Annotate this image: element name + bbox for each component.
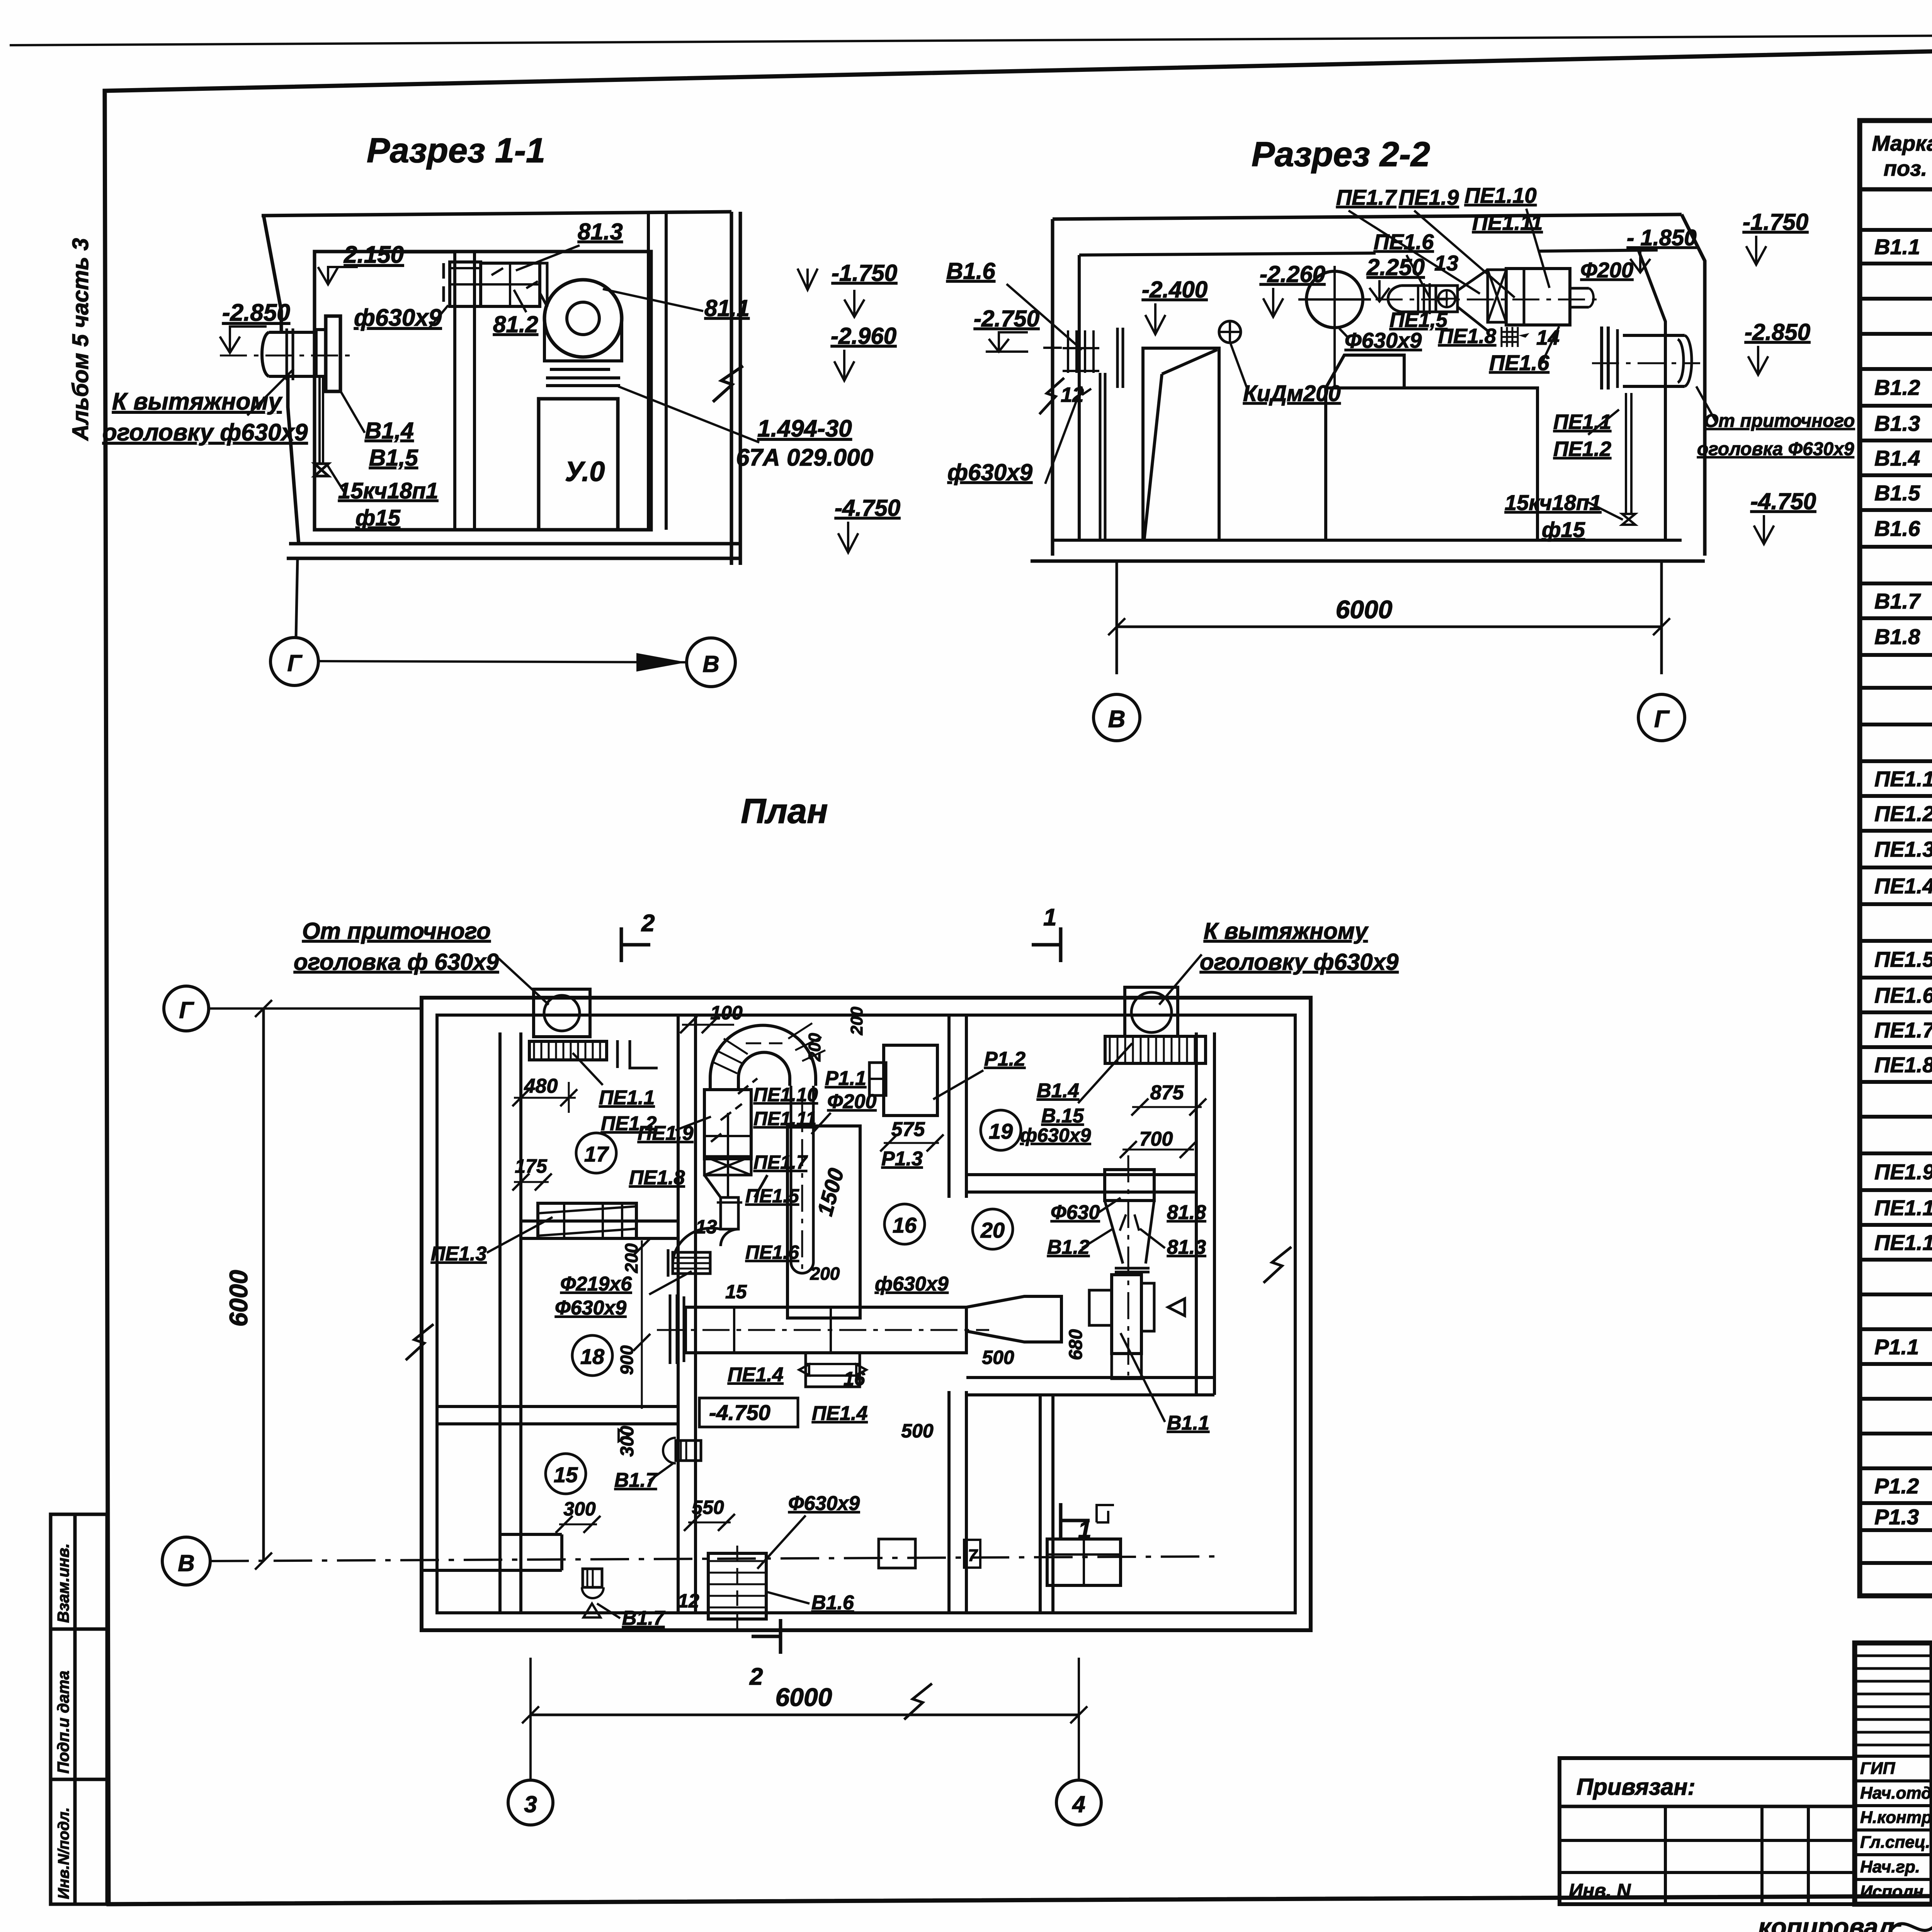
svg-text:15кч18п1: 15кч18п1 xyxy=(338,478,438,503)
svg-text:2: 2 xyxy=(641,910,655,937)
svg-text:200: 200 xyxy=(847,1007,866,1036)
plan boxed -4.750 xyxy=(699,1398,798,1427)
svg-text:К вытяжному: К вытяжному xyxy=(112,388,283,415)
svg-text:ПЕ1.6: ПЕ1.6 xyxy=(745,1242,799,1263)
svg-text:Г: Г xyxy=(179,997,195,1023)
svg-text:Ф630х9: Ф630х9 xyxy=(1345,328,1422,352)
svg-text:-2.260: -2.260 xyxy=(1260,261,1325,287)
svg-text:Нач.гр.: Нач.гр. xyxy=(1860,1857,1920,1876)
s1 outer left notch xyxy=(264,215,281,332)
svg-text:81.1: 81.1 xyxy=(704,295,750,321)
spec table header row line xyxy=(1860,187,1932,192)
s1 wedge xyxy=(540,263,547,306)
svg-text:2.150: 2.150 xyxy=(344,241,404,268)
svg-text:Исполн.: Исполн. xyxy=(1860,1882,1928,1901)
svg-text:ПЕ1.11: ПЕ1.11 xyxy=(1874,1230,1932,1255)
s1 drain pipe xyxy=(318,376,321,464)
svg-text:900: 900 xyxy=(617,1345,637,1375)
svg-text:Г: Г xyxy=(1654,706,1670,733)
svg-text:ПЕ1.10: ПЕ1.10 xyxy=(1464,183,1537,207)
svg-text:-4.750: -4.750 xyxy=(1750,488,1816,514)
svg-text:Марка: Марка xyxy=(1872,131,1932,155)
plan PE1.9 leader xyxy=(675,1117,711,1130)
plan filter X section xyxy=(704,1156,751,1175)
spec table outer box xyxy=(1860,121,1932,1596)
svg-text:14: 14 xyxy=(1536,326,1560,349)
s2 break mark left xyxy=(1039,378,1064,414)
svg-text:1: 1 xyxy=(1078,1517,1091,1543)
svg-text:Р1.1: Р1.1 xyxy=(825,1067,866,1090)
svg-text:-4.750: -4.750 xyxy=(835,495,900,521)
svg-text:Разрез 2-2: Разрез 2-2 xyxy=(1252,135,1430,174)
s2 inner riser duct xyxy=(1067,330,1069,373)
plan duct flanges xyxy=(733,1307,735,1353)
svg-text:Инв. N: Инв. N xyxy=(1569,1880,1631,1901)
plan axis 3 xyxy=(508,1780,553,1825)
svg-text:копировал:: копировал: xyxy=(1758,1913,1903,1932)
svg-text:оголовку ф630х9: оголовку ф630х9 xyxy=(1200,949,1399,975)
svg-text:ф630х9: ф630х9 xyxy=(875,1273,949,1295)
svg-text:В1.4: В1.4 xyxy=(1037,1080,1079,1102)
svg-text:План: План xyxy=(741,792,828,831)
svg-text:3: 3 xyxy=(524,1791,537,1817)
svg-text:680: 680 xyxy=(1066,1329,1086,1360)
svg-text:12: 12 xyxy=(678,1590,699,1612)
svg-text:ПЕ1.1: ПЕ1.1 xyxy=(1874,767,1932,791)
svg-text:2.250: 2.250 xyxy=(1366,254,1425,280)
s1 break mark right xyxy=(713,366,743,402)
privyazan table xyxy=(1560,1758,1855,1904)
svg-text:ПЕ1.5: ПЕ1.5 xyxy=(1874,947,1932,971)
svg-text:81.3: 81.3 xyxy=(1167,1236,1206,1259)
s1 room interior columns xyxy=(453,252,456,530)
svg-text:15: 15 xyxy=(554,1463,578,1487)
plan small duct below funnel xyxy=(721,1197,738,1229)
svg-text:-1.750: -1.750 xyxy=(1743,209,1808,235)
svg-text:-2.960: -2.960 xyxy=(831,323,896,349)
plan exhaust riser xyxy=(1125,987,1178,1036)
plan PE1.3 filter xyxy=(538,1203,636,1238)
s2 floor xyxy=(1053,539,1682,542)
plan filter unit PE1.10/11 box xyxy=(704,1090,751,1159)
svg-text:500: 500 xyxy=(901,1420,934,1442)
svg-text:16: 16 xyxy=(893,1213,917,1237)
svg-text:200: 200 xyxy=(621,1243,641,1273)
plan triangle marker xyxy=(1168,1299,1185,1316)
svg-text:ПЕ1.7: ПЕ1.7 xyxy=(753,1151,808,1173)
section 1-1 group xyxy=(102,131,900,687)
svg-text:12: 12 xyxy=(1061,383,1084,406)
svg-text:ГИП: ГИП xyxy=(1860,1759,1896,1778)
svg-text:Р1.1: Р1.1 xyxy=(1874,1335,1919,1359)
plan supply riser xyxy=(534,989,590,1037)
svg-text:-2.850: -2.850 xyxy=(1745,319,1810,345)
plan horizontal partition left xyxy=(437,1405,678,1408)
svg-text:17: 17 xyxy=(584,1142,609,1166)
s2 right duct to hood xyxy=(1623,334,1685,337)
svg-text:В1.7: В1.7 xyxy=(622,1607,665,1629)
svg-text:В: В xyxy=(1108,706,1126,733)
svg-text:6000: 6000 xyxy=(776,1683,832,1711)
s2 outer top xyxy=(1053,214,1682,219)
svg-text:В1.8: В1.8 xyxy=(1874,624,1920,649)
s2 axis circle В xyxy=(1094,694,1140,741)
paper top edge xyxy=(10,32,1932,45)
plan labels group xyxy=(294,904,1399,1690)
title block signature grid xyxy=(1930,1643,1932,1904)
s2 left wall xyxy=(1051,219,1054,556)
svg-text:700: 700 xyxy=(1139,1128,1173,1150)
svg-text:ф15: ф15 xyxy=(1542,517,1585,542)
svg-text:Ф630: Ф630 xyxy=(1051,1201,1100,1224)
plan section marks 2 xyxy=(621,927,650,962)
svg-text:оголовку ф630х9: оголовку ф630х9 xyxy=(102,419,308,446)
svg-text:81.2: 81.2 xyxy=(493,311,538,337)
svg-text:В1.3: В1.3 xyxy=(1874,411,1920,435)
plan big horizontal duct xyxy=(685,1307,966,1353)
svg-text:6000: 6000 xyxy=(224,1270,253,1327)
svg-text:7: 7 xyxy=(968,1546,978,1565)
svg-text:300: 300 xyxy=(563,1498,596,1520)
svg-text:В1.2: В1.2 xyxy=(1874,375,1920,400)
svg-text:1: 1 xyxy=(1043,904,1056,931)
s2 sump shape xyxy=(1143,348,1219,540)
svg-text:ф630х9: ф630х9 xyxy=(1020,1124,1091,1146)
svg-text:От приточного: От приточного xyxy=(302,918,491,944)
s2 X box xyxy=(1488,270,1506,322)
svg-text:Нач.отд: Нач.отд xyxy=(1860,1784,1932,1803)
section 2-2 group xyxy=(946,135,1855,741)
svg-text:Альбом 5 часть 3: Альбом 5 часть 3 xyxy=(68,238,93,441)
plan group xyxy=(162,792,1311,1825)
svg-text:В1.7: В1.7 xyxy=(1874,589,1921,613)
svg-text:ПЕ1.2: ПЕ1.2 xyxy=(1553,437,1611,461)
plan heater P1.2 box xyxy=(884,1045,937,1116)
plan dim 6000 bottom xyxy=(531,1714,1079,1716)
svg-text:16: 16 xyxy=(844,1368,866,1389)
svg-text:В1.4: В1.4 xyxy=(1874,446,1920,470)
svg-text:2: 2 xyxy=(749,1663,763,1690)
plan B1.7 bottom xyxy=(583,1569,602,1587)
svg-text:В1.6: В1.6 xyxy=(1874,516,1920,541)
title block outer xyxy=(1855,1643,1932,1904)
svg-text:В1.1: В1.1 xyxy=(1167,1412,1209,1434)
s1 room box xyxy=(315,252,651,530)
s1 axis circle Г xyxy=(270,638,318,685)
svg-text:15: 15 xyxy=(725,1281,747,1303)
s2 left wall level tick xyxy=(1043,347,1062,349)
svg-text:Ф630х9: Ф630х9 xyxy=(555,1297,626,1319)
svg-text:13: 13 xyxy=(1434,251,1458,275)
svg-text:В1.5: В1.5 xyxy=(1874,481,1920,505)
plan U-duct dashes xyxy=(746,1043,782,1044)
s1 fan B1.1 scroll xyxy=(544,280,622,357)
s2 right wall with notch xyxy=(1682,214,1705,556)
svg-text:13: 13 xyxy=(696,1216,717,1238)
plan section marks 1 xyxy=(1032,927,1061,962)
plan exhaust grille xyxy=(1105,1036,1206,1063)
svg-text:ПЕ1.6: ПЕ1.6 xyxy=(1489,350,1549,375)
plan axis Г xyxy=(164,986,209,1031)
plan corridor walls xyxy=(498,1032,502,1613)
s1 outer bottom xyxy=(289,542,740,546)
svg-text:6000: 6000 xyxy=(1336,595,1393,624)
s2 filter box PE1.10/11 xyxy=(1506,269,1570,325)
s1 duct axis xyxy=(220,355,353,357)
svg-text:- 1.850: - 1.850 xyxy=(1627,225,1697,250)
svg-text:Разрез 1-1: Разрез 1-1 xyxy=(367,131,545,170)
svg-text:550: 550 xyxy=(692,1497,724,1518)
svg-text:ПЕ1.9: ПЕ1.9 xyxy=(638,1122,693,1145)
svg-text:Ф630х9: Ф630х9 xyxy=(788,1492,860,1515)
svg-text:ПЕ1.3: ПЕ1.3 xyxy=(1874,837,1932,861)
svg-text:КиДм200: КиДм200 xyxy=(1243,381,1341,406)
svg-text:19: 19 xyxy=(989,1119,1013,1143)
plan B1.6 bottom box xyxy=(708,1553,766,1619)
s1 duct left (to hood) xyxy=(269,331,315,334)
svg-text:ПЕ1.11: ПЕ1.11 xyxy=(753,1108,816,1129)
s2 kidm valve xyxy=(1219,321,1241,343)
svg-text:ПЕ1.7: ПЕ1.7 xyxy=(1874,1018,1932,1042)
svg-text:ПЕ1.10: ПЕ1.10 xyxy=(1874,1196,1932,1220)
svg-text:200: 200 xyxy=(810,1264,840,1284)
svg-text:Р1.2: Р1.2 xyxy=(984,1048,1026,1070)
plan small duct B1.7 top xyxy=(676,1440,701,1461)
svg-text:У.0: У.0 xyxy=(565,456,605,487)
plan partition middle-right xyxy=(947,1015,951,1198)
svg-text:ПЕ1.8: ПЕ1.8 xyxy=(1874,1053,1932,1077)
plan wall 19/20 bottom xyxy=(966,1376,1214,1379)
svg-text:В1.1: В1.1 xyxy=(1874,235,1920,259)
svg-text:К вытяжному: К вытяжному xyxy=(1204,918,1369,944)
svg-text:оголовка Ф630х9: оголовка Ф630х9 xyxy=(1697,439,1854,459)
plan B1.3 flanges xyxy=(1115,1267,1150,1270)
s2 f200 stub xyxy=(1570,287,1589,290)
s1 axis arrow xyxy=(318,661,687,662)
plan B1.2 taper xyxy=(1105,1201,1154,1264)
s1 outer structure top xyxy=(262,212,731,216)
plan partition left-middle xyxy=(677,1015,680,1613)
svg-text:ПЕ1.8: ПЕ1.8 xyxy=(629,1167,685,1189)
s2 bottom dim 6000 xyxy=(1116,561,1118,674)
svg-text:ПЕ1.9: ПЕ1.9 xyxy=(1399,185,1459,209)
svg-text:200: 200 xyxy=(805,1033,824,1062)
svg-text:-1.750: -1.750 xyxy=(832,260,897,286)
s1 filter box B1.3 xyxy=(481,263,540,306)
s2 cone xyxy=(1458,270,1488,331)
s2 heater PE1.8 coil xyxy=(1502,327,1518,347)
svg-text:Г: Г xyxy=(287,650,303,676)
plan outer walls xyxy=(422,998,1311,1630)
s2 axis circle Г xyxy=(1638,694,1685,741)
s1 filter box B1.2 xyxy=(450,262,481,306)
s1 fan base xyxy=(550,368,610,371)
plan wall 17/18 divider xyxy=(521,1219,678,1223)
plan dim 6000 left xyxy=(262,1009,265,1561)
s2 equipment box xyxy=(1326,388,1537,540)
plan fan B1.1 xyxy=(1112,1275,1141,1354)
plan vertical duct F200 xyxy=(790,1086,793,1262)
svg-text:ПЕ1.7: ПЕ1.7 xyxy=(1336,185,1397,209)
svg-text:175: 175 xyxy=(515,1155,548,1177)
plan funnel below filter xyxy=(704,1175,767,1197)
svg-text:20: 20 xyxy=(980,1218,1005,1242)
plan U-duct top middle xyxy=(710,1026,816,1091)
svg-text:1.494-30: 1.494-30 xyxy=(757,415,852,442)
svg-text:15кч18п1: 15кч18п1 xyxy=(1505,490,1601,515)
svg-text:18: 18 xyxy=(580,1344,605,1369)
svg-text:В.15: В.15 xyxy=(1041,1105,1084,1127)
svg-text:ПЕ1.6: ПЕ1.6 xyxy=(1874,983,1932,1007)
svg-text:ПЕ1.4: ПЕ1.4 xyxy=(728,1364,783,1386)
svg-text:480: 480 xyxy=(524,1075,558,1097)
plan horizontal partition right xyxy=(966,1173,1196,1176)
svg-text:Инв.N/подл.: Инв.N/подл. xyxy=(55,1807,72,1899)
svg-text:Привязан:: Привязан: xyxy=(1577,1774,1695,1800)
svg-text:В1,5: В1,5 xyxy=(369,445,418,471)
plan dim 700 line xyxy=(1122,1149,1194,1151)
plan axis В xyxy=(162,1537,210,1585)
s2 box with circle valve xyxy=(1436,286,1458,312)
s1 valve plate B1.4/B1.5 xyxy=(326,316,340,391)
svg-text:Ф219х6: Ф219х6 xyxy=(560,1273,632,1295)
svg-text:В1.6: В1.6 xyxy=(946,258,995,284)
svg-text:500: 500 xyxy=(982,1347,1014,1368)
s1 U.0 box xyxy=(539,399,618,530)
svg-text:Р1.2: Р1.2 xyxy=(1874,1474,1919,1498)
svg-text:-4.750: -4.750 xyxy=(709,1400,770,1425)
svg-text:4: 4 xyxy=(1072,1791,1085,1817)
svg-text:875: 875 xyxy=(1150,1082,1184,1104)
left margin stamp boxes xyxy=(51,1514,107,1904)
svg-text:Р1.3: Р1.3 xyxy=(881,1148,923,1170)
svg-text:Взам.инв.: Взам.инв. xyxy=(54,1543,72,1623)
svg-text:ПЕ1.3: ПЕ1.3 xyxy=(431,1243,486,1265)
svg-text:Р1.3: Р1.3 xyxy=(1874,1505,1919,1529)
svg-text:575: 575 xyxy=(891,1118,925,1141)
plan axis 4 xyxy=(1056,1780,1101,1825)
svg-text:ф15: ф15 xyxy=(355,505,401,531)
svg-text:Гл.спец.: Гл.спец. xyxy=(1860,1833,1930,1852)
svg-text:оголовка ф 630х9: оголовка ф 630х9 xyxy=(294,949,499,975)
svg-text:В: В xyxy=(702,651,719,677)
plan corner symbol xyxy=(617,1040,658,1068)
plan break marks xyxy=(406,1324,434,1360)
svg-text:Подп.и дата: Подп.и дата xyxy=(54,1671,72,1774)
svg-text:ПЕ1.4: ПЕ1.4 xyxy=(812,1402,867,1425)
svg-text:ПЕ1.1: ПЕ1.1 xyxy=(599,1087,655,1109)
plan angled duct right xyxy=(966,1296,1061,1342)
plan vestibule stub xyxy=(500,1533,562,1536)
s2 lyuk capsule PE1.5 xyxy=(1388,286,1437,312)
plan valve hatched box xyxy=(673,1252,710,1274)
plan B1.8 transition box xyxy=(1105,1170,1154,1201)
s2 duct circle xyxy=(1306,271,1363,328)
plan bottom rects xyxy=(879,1539,915,1568)
svg-text:ПЕ1.9: ПЕ1.9 xyxy=(1874,1160,1932,1184)
plan 1500 box xyxy=(787,1126,860,1318)
plan PE1.4 branch stub xyxy=(806,1353,860,1387)
plan lower-right room walls xyxy=(1039,1395,1042,1613)
s1 axis line bottom xyxy=(296,558,298,638)
plan right zone wall xyxy=(1195,1032,1198,1395)
plan room circles xyxy=(576,1133,616,1173)
s1 outer right wall xyxy=(730,212,733,565)
svg-text:В1,4: В1,4 xyxy=(365,418,414,444)
svg-text:-2.850: -2.850 xyxy=(222,299,290,326)
s1 drain valve xyxy=(315,464,328,476)
svg-text:ПЕ1.4: ПЕ1.4 xyxy=(1874,874,1932,898)
svg-text:В1.6: В1.6 xyxy=(811,1592,854,1614)
signature rows xyxy=(1855,1755,1932,1758)
svg-text:Ф200: Ф200 xyxy=(1580,258,1633,282)
svg-text:81.8: 81.8 xyxy=(1167,1201,1206,1224)
svg-text:-2.400: -2.400 xyxy=(1142,277,1207,303)
svg-text:ПЕ1.5: ПЕ1.5 xyxy=(745,1185,799,1207)
s2 axis dashdot xyxy=(1376,299,1600,301)
svg-text:ПЕ1.8: ПЕ1.8 xyxy=(1438,325,1496,348)
svg-text:ПЕ1.10: ПЕ1.10 xyxy=(753,1084,818,1105)
svg-text:-2.750: -2.750 xyxy=(974,306,1039,332)
svg-text:От приточного: От приточного xyxy=(1704,411,1855,431)
s1 axis circle В xyxy=(687,638,735,687)
svg-text:Н.контр.: Н.контр. xyxy=(1860,1808,1932,1827)
svg-text:ПЕ1.2: ПЕ1.2 xyxy=(1874,801,1932,826)
svg-text:поз.: поз. xyxy=(1884,156,1927,180)
svg-text:67А 029.000: 67А 029.000 xyxy=(736,444,873,471)
plan elbow duct xyxy=(673,1228,738,1265)
svg-text:ф630х9: ф630х9 xyxy=(947,459,1033,485)
svg-text:В: В xyxy=(178,1550,194,1576)
plan fan P1.1 xyxy=(869,1063,886,1095)
s2 ceiling inner xyxy=(1079,253,1376,255)
s2 pipe down right xyxy=(1625,393,1627,514)
plan U-duct bend hatches xyxy=(714,1023,825,1073)
svg-text:Ф200: Ф200 xyxy=(827,1090,876,1113)
svg-text:ПЕ1.6: ПЕ1.6 xyxy=(1374,230,1434,254)
spec table row lines xyxy=(1860,228,1932,232)
plan supply grille xyxy=(529,1041,607,1060)
svg-text:300: 300 xyxy=(617,1426,638,1457)
svg-text:81.3: 81.3 xyxy=(578,219,623,245)
plan small 7 box xyxy=(964,1540,980,1568)
